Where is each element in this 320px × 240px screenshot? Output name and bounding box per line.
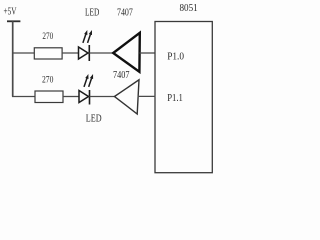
- svg-text:8051: 8051: [180, 3, 198, 14]
- wire: rail corner to R2: [12, 96, 35, 98]
- wire: rail to R1: [12, 52, 35, 54]
- +5V power rail bar: [7, 20, 20, 22]
- svg-text:LED: LED: [85, 7, 99, 18]
- wire: D2 to U2: [90, 96, 115, 98]
- buffer U1 7407: [113, 33, 140, 72]
- LED D1: [79, 30, 93, 61]
- wire: +5V vertical rail: [12, 21, 14, 96]
- resistor R1 (270): [34, 48, 62, 59]
- wire: U1 to P1.0: [140, 52, 156, 54]
- svg-text:7407: 7407: [113, 70, 130, 81]
- wire: R1 to LED D1: [62, 52, 79, 54]
- svg-text:+5V: +5V: [4, 7, 18, 18]
- wire: D1 to U1: [89, 52, 113, 54]
- IC 8051 box: [155, 22, 212, 173]
- wire: R2 to LED D2: [63, 96, 79, 98]
- svg-text:P1.1: P1.1: [167, 93, 183, 104]
- buffer U2 7407: [115, 80, 140, 114]
- LED D2: [79, 74, 93, 105]
- svg-text:LED: LED: [86, 113, 102, 124]
- svg-text:270: 270: [42, 31, 53, 41]
- resistor R2 (270): [35, 91, 63, 103]
- svg-text:P1.0: P1.0: [167, 51, 184, 62]
- svg-text:7407: 7407: [117, 7, 133, 18]
- wire: U2 to P1.1: [138, 95, 156, 97]
- svg-text:270: 270: [42, 75, 54, 85]
